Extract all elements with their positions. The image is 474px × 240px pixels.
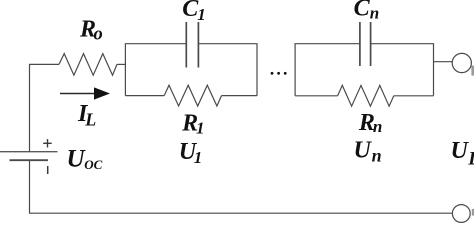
label U_n xyxy=(354,138,382,166)
svg-text:L: L xyxy=(467,149,474,170)
svg-text:n: n xyxy=(373,117,382,136)
wire R_o to box1 xyxy=(117,63,125,65)
resistor Rn bottom branch of box n xyxy=(295,95,338,97)
ellipsis dots between boxes xyxy=(271,72,287,75)
svg-text:o: o xyxy=(94,24,103,44)
resistor R1 bottom branch of box1 xyxy=(125,95,164,97)
label R_1 xyxy=(181,111,204,138)
capacitor C1 plates xyxy=(186,22,198,68)
svg-text:1: 1 xyxy=(194,148,203,167)
svg-text:OC: OC xyxy=(84,157,102,172)
capacitor Cn plates xyxy=(360,22,371,66)
svg-text:L: L xyxy=(84,110,96,130)
label C_n xyxy=(354,0,380,23)
cut-off wire stub right of bottom terminal xyxy=(472,209,474,216)
svg-text:n: n xyxy=(370,4,379,23)
svg-text:1: 1 xyxy=(197,5,206,24)
label R_n xyxy=(358,110,382,136)
battery U_OC top plate (+) xyxy=(0,151,58,153)
battery U_OC bottom plate (-) xyxy=(10,159,49,161)
battery minus tick xyxy=(47,166,49,174)
label C_1 xyxy=(182,0,206,24)
RC box 1 frame (left edge, top wires, right edge) xyxy=(125,44,257,96)
wire battery top to R_o xyxy=(30,64,60,151)
top output terminal circle xyxy=(452,53,471,72)
wire box n to top terminal xyxy=(434,61,453,63)
bottom output terminal circle xyxy=(452,205,470,223)
svg-text:C: C xyxy=(354,0,371,22)
resistor R_o zigzag xyxy=(59,54,117,76)
wire battery bottom to lower terminal xyxy=(30,160,453,213)
battery plus sign xyxy=(43,139,52,147)
label U_1 xyxy=(179,139,203,167)
svg-text:U: U xyxy=(451,138,470,164)
label U_L xyxy=(451,138,474,170)
svg-text:U: U xyxy=(354,138,373,164)
RC box n frame xyxy=(295,44,433,96)
label U_OC xyxy=(67,145,103,172)
label I_L xyxy=(77,101,96,129)
label R_o xyxy=(79,17,103,45)
cut-off wire stub right of top terminal xyxy=(471,66,474,76)
svg-text:n: n xyxy=(372,146,382,166)
current arrow I_L xyxy=(60,93,97,95)
svg-text:1: 1 xyxy=(196,119,205,138)
